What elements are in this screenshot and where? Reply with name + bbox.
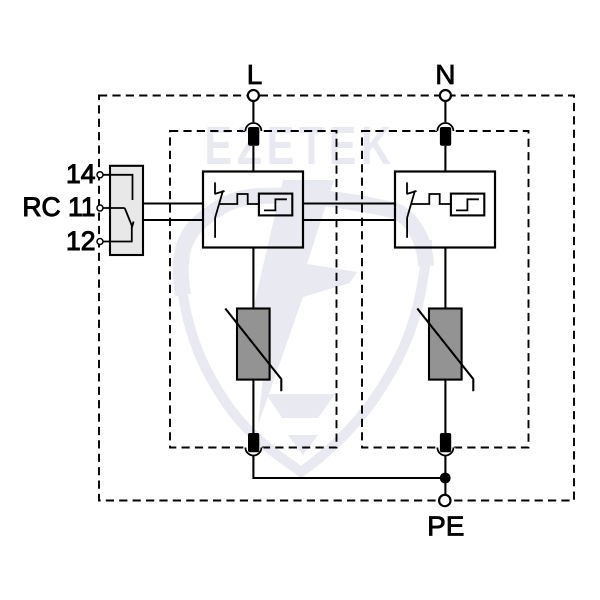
watermark logo [181,116,427,472]
disconnector box U2 [395,172,495,248]
wire U2 to varistor RU2 [444,248,446,309]
RC wire 12 [103,226,132,242]
SPD terminal lug N top [440,127,451,146]
pulse trip line U1 [219,194,259,204]
wire RC to U1 upper [143,202,203,204]
RC terminal circle 11 [97,205,103,211]
switch contact post bottom U1 [214,218,216,238]
svg-text:PE: PE [427,511,464,542]
SPD terminal lug L bottom [248,433,259,452]
terminal circle L [248,90,259,101]
wire U1 to U2 upper [303,202,395,204]
wire L vertical top [252,101,254,127]
pulse trip line U2 [411,194,451,204]
switch contact post bottom U2 [406,218,408,238]
switch fixed contact tick U1 [215,191,225,194]
svg-text:EZETEK: EZETEK [205,116,396,176]
RC terminal circle 12 [97,239,103,245]
indicator box U1 [259,194,292,216]
RC blade [125,208,132,226]
RC terminal circle 14 [97,172,103,178]
varistor RU2 [417,309,473,392]
wire U1 to U2 lower [303,219,395,221]
terminal hop arc L top [243,122,263,131]
switch fixed contact tick U2 [407,191,417,194]
svg-text:L: L [247,59,263,90]
remote contact block RC [103,166,143,255]
terminal hop arc L bottom [243,448,263,457]
indicator step U1 [264,199,287,210]
SPD terminal lug L top [248,127,259,146]
svg-text:N: N [435,59,455,90]
inner dashed module box L [170,131,337,448]
inner dashed module box N [362,131,529,448]
wire varistor RU1 to bottom terminal [252,380,254,433]
terminal circle N [440,90,451,101]
svg-text:14: 14 [66,159,95,189]
switch contact post top U2 [406,182,408,194]
disconnector box U1 [203,172,303,248]
varistor RU1 [225,309,281,392]
wire L mid (terminal to box) [252,146,254,172]
RC wire 14 [103,175,133,200]
wire U1 to varistor RU1 [252,248,254,309]
junction dot [440,473,451,484]
watermark shield outline [183,240,427,472]
svg-text:RC 11: RC 11 [22,192,95,222]
SPD terminal lug N bottom [440,433,451,452]
watermark lightning bolt [250,180,357,425]
watermark chevron 1 [266,394,335,418]
wire RC to U1 lower [143,219,203,221]
wire varistor RU2 to bottom terminal [444,380,446,433]
switch blade U1 [215,191,223,218]
indicator box U2 [451,194,484,216]
RC blade barb [132,222,134,228]
wire N vertical top [444,101,446,127]
switch contact post top U1 [214,182,216,194]
wire L bottom drop [253,456,445,478]
terminal circle PE [439,495,450,506]
switch blade U2 [407,191,415,218]
watermark chevron 2 [288,435,318,455]
svg-text:12: 12 [66,226,95,256]
indicator step U2 [456,199,479,210]
terminal hop arc N bottom [435,448,455,457]
outer dashed enclosure [99,96,574,501]
wire N mid (terminal to box) [444,146,446,172]
wire N bottom to PE [444,456,446,495]
terminal hop arc N top [435,122,455,131]
watermark swoosh [181,196,426,295]
RC wire 11 [103,207,125,209]
